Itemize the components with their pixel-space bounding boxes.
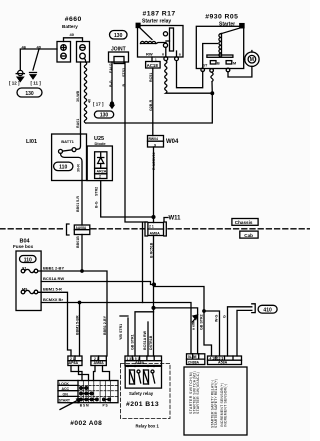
svg-text:M9: M9 (22, 288, 27, 292)
svg-text:#930 R05: #930 R05 (205, 13, 238, 20)
svg-text:130: 130 (114, 33, 123, 39)
svg-text:2 1: 2 1 (70, 357, 75, 361)
svg-text:2 1: 2 1 (149, 225, 154, 229)
svg-text:410: 410 (263, 308, 272, 314)
svg-text:INCREMENT SENSOR(-): INCREMENT SENSOR(-) (224, 384, 228, 428)
svg-text:Diode: Diode (95, 141, 107, 146)
svg-text:W-G: W-G (215, 314, 219, 322)
svg-text:46: 46 (22, 45, 27, 50)
svg-text:#660: #660 (65, 16, 82, 23)
svg-text:BBM1 5-BR: BBM1 5-BR (76, 315, 80, 335)
svg-text:STS3: STS3 (122, 68, 126, 77)
svg-text:B: B (217, 62, 220, 66)
svg-text:4 16 13 3: 4 16 13 3 (210, 356, 224, 360)
svg-text:BCS1A RW: BCS1A RW (143, 330, 147, 350)
svg-text:Chassis: Chassis (235, 220, 253, 225)
svg-text:40: 40 (37, 45, 42, 50)
svg-text:a e/M: a e/M (192, 321, 196, 330)
svg-text:AP8A: AP8A (69, 361, 79, 365)
svg-text:Y/B STR1: Y/B STR1 (119, 324, 123, 340)
svg-text:B RC51B: B RC51B (150, 242, 154, 258)
svg-text:AR2A: AR2A (97, 170, 107, 174)
svg-text:ON: ON (63, 393, 69, 397)
svg-text:Relay box 1: Relay box 1 (136, 424, 160, 429)
svg-text:AM8A: AM8A (94, 361, 105, 365)
svg-text:2: 2 (99, 175, 101, 179)
svg-text:40: 40 (70, 32, 75, 37)
svg-text:P S: P S (103, 404, 108, 408)
svg-text:DSTR1B: DSTR1B (149, 335, 153, 350)
svg-text:130: 130 (100, 113, 109, 119)
svg-text:Fuse box: Fuse box (13, 244, 34, 249)
svg-text:130: 130 (25, 91, 34, 97)
svg-text:#187 R17: #187 R17 (143, 10, 176, 17)
svg-text:Cab: Cab (244, 233, 253, 238)
svg-text:#002 A08: #002 A08 (70, 420, 102, 427)
svg-text:#201 B13: #201 B13 (126, 401, 159, 408)
svg-text:B S M: B S M (80, 404, 89, 408)
svg-text:AC18: AC18 (147, 63, 159, 68)
svg-text:9: 9 (154, 143, 156, 147)
svg-text:BATT1: BATT1 (61, 139, 74, 144)
svg-text:BBB1 2-BY: BBB1 2-BY (43, 265, 64, 270)
svg-text:BB01 5-R: BB01 5-R (76, 196, 80, 212)
svg-text:Battery: Battery (62, 24, 78, 29)
svg-text:A58A: A58A (218, 360, 228, 364)
svg-text:R ACSV04: R ACSV04 (152, 153, 156, 170)
svg-text:110: 110 (59, 164, 67, 170)
svg-text:JOINT: JOINT (111, 47, 126, 53)
svg-text:Safety relay: Safety relay (129, 391, 154, 396)
svg-text:RW04: RW04 (149, 137, 158, 141)
svg-text:X1: X1 (22, 267, 27, 271)
svg-text:ACC: ACC (62, 387, 70, 391)
svg-text:GB STR2: GB STR2 (200, 314, 204, 330)
svg-text:B-G: B-G (95, 201, 99, 208)
svg-text:STR2: STR2 (95, 187, 99, 196)
svg-text:40: 40 (88, 99, 92, 103)
svg-text:[ 12 ]: [ 12 ] (9, 81, 20, 86)
svg-text:BB01B: BB01B (76, 236, 80, 248)
svg-text:M: M (250, 57, 254, 63)
svg-text:AM8A: AM8A (150, 231, 161, 235)
svg-text:110: 110 (24, 257, 32, 263)
svg-text:W11: W11 (169, 216, 182, 222)
svg-text:B-G: B-G (109, 80, 113, 87)
svg-text:[ 11 ]: [ 11 ] (31, 81, 42, 86)
svg-text:G: G (222, 315, 226, 318)
svg-text:STARTER SW(IG/ACC): STARTER SW(IG/ACC) (196, 372, 200, 414)
svg-text:A68A: A68A (135, 361, 145, 365)
svg-text:30-WB: 30-WB (76, 90, 80, 102)
svg-text:Starter: Starter (219, 22, 235, 28)
svg-text:2 1: 2 1 (94, 357, 99, 361)
svg-text:BCS1A RW: BCS1A RW (43, 276, 64, 281)
svg-text:[ 17 ]: [ 17 ] (93, 102, 104, 107)
svg-text:STARTER SAFETY RELAY(+): STARTER SAFETY RELAY(+) (214, 379, 218, 428)
svg-text:LOCK: LOCK (59, 382, 69, 386)
svg-text:BBM1 5-R: BBM1 5-R (43, 287, 62, 292)
svg-text:G2B-R: G2B-R (149, 99, 153, 111)
svg-text:LI01: LI01 (26, 139, 37, 145)
svg-text:RW: RW (146, 52, 153, 57)
svg-text:RA01: RA01 (76, 119, 80, 128)
svg-text:START: START (59, 399, 71, 403)
svg-text:BCMXX Br: BCMXX Br (43, 297, 63, 302)
svg-text:EAU2: EAU2 (109, 63, 113, 73)
svg-text:AA08A: AA08A (76, 226, 87, 230)
svg-text:5L 5E 7: 5L 5E 7 (188, 355, 200, 359)
svg-text:B: B (122, 84, 126, 87)
svg-text:GB STR1: GB STR1 (131, 334, 135, 350)
svg-text:M: M (233, 62, 236, 66)
svg-text:ST: ST (203, 64, 209, 68)
svg-text:CN88A: CN88A (188, 360, 200, 364)
svg-text:Starter relay: Starter relay (142, 18, 171, 24)
svg-text:BBB1 2-BY: BBB1 2-BY (103, 315, 107, 335)
svg-text:W04: W04 (166, 139, 179, 145)
svg-text:RC51: RC51 (149, 73, 153, 82)
svg-text:1 3 4 5 1: 1 3 4 5 1 (127, 357, 140, 361)
svg-text:30-R: 30-R (77, 164, 81, 172)
